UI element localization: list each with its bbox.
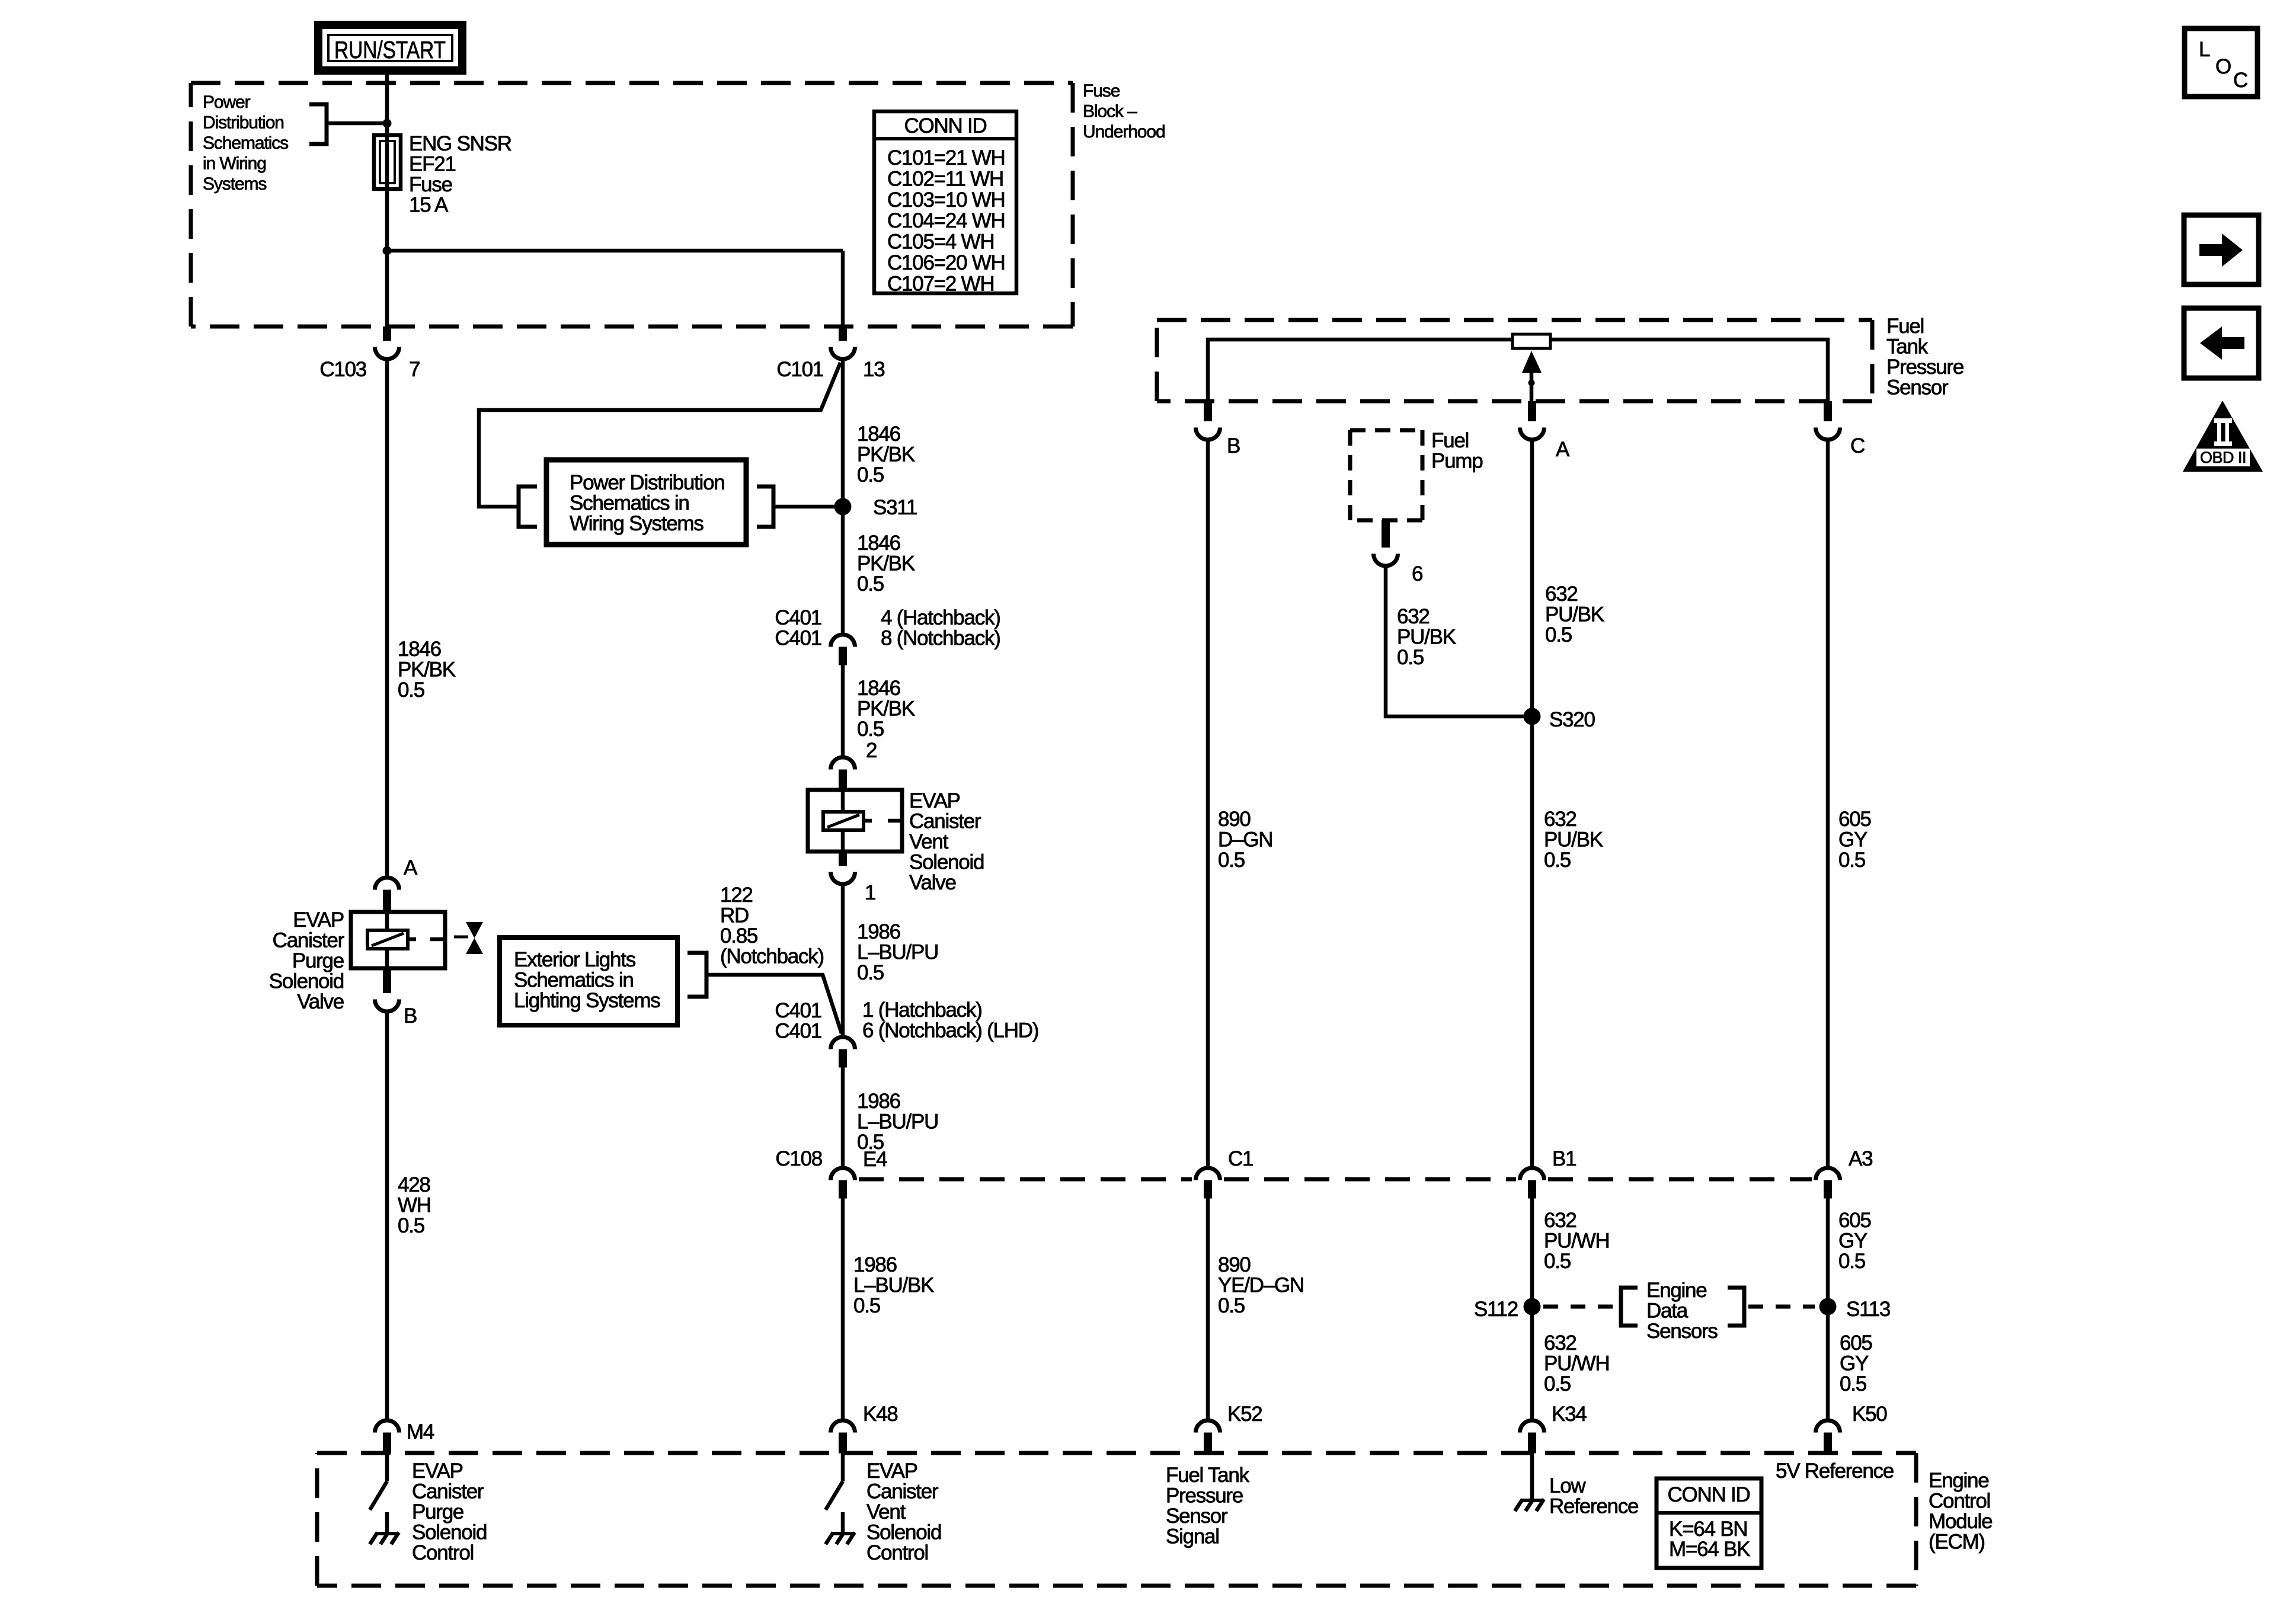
svg-text:1986: 1986 xyxy=(857,1090,900,1113)
label S320 xyxy=(1549,708,1595,731)
svg-text:1986: 1986 xyxy=(853,1253,897,1276)
label A xyxy=(1556,438,1570,461)
svg-text:A: A xyxy=(404,856,418,879)
svg-text:YE/D–GN: YE/D–GN xyxy=(1218,1274,1304,1297)
svg-text:0.5: 0.5 xyxy=(1838,1250,1865,1273)
svg-text:Control: Control xyxy=(866,1541,928,1564)
svg-text:Schematics: Schematics xyxy=(203,133,288,153)
svg-text:Solenoid: Solenoid xyxy=(909,851,984,874)
svg-text:Control: Control xyxy=(1929,1490,1990,1513)
wire E4 to K48 (1986 L-BU/BK) xyxy=(841,1198,845,1419)
connector pin A of sensor xyxy=(1520,401,1544,440)
arrow right legend box xyxy=(2184,215,2259,284)
splice S112 xyxy=(1524,1298,1541,1315)
wire sensor C to A3 (605 GY) xyxy=(1826,441,1830,1166)
svg-text:PU/BK: PU/BK xyxy=(1397,626,1456,649)
label Fuel Pump xyxy=(1431,429,1482,473)
svg-text:PK/BK: PK/BK xyxy=(857,443,915,466)
fuel pump dashed box xyxy=(1350,430,1422,520)
svg-text:Wiring Systems: Wiring Systems xyxy=(570,512,703,535)
connector C401 pins 1/6 xyxy=(831,1037,855,1068)
svg-text:Tank: Tank xyxy=(1886,335,1929,359)
wire sensor B to C1 (890 D-GN) xyxy=(1206,441,1210,1166)
connector C101 pin 13 xyxy=(831,327,855,359)
svg-text:0.5: 0.5 xyxy=(1840,1372,1866,1395)
wire C101 to S311 and C401 xyxy=(841,361,845,633)
svg-text:B: B xyxy=(1227,434,1240,457)
connector C401 pins 4/8 xyxy=(831,635,855,665)
label pin B xyxy=(404,1004,417,1028)
svg-text:632: 632 xyxy=(1397,605,1430,628)
ECM CONN ID table xyxy=(1657,1478,1761,1568)
svg-text:B1: B1 xyxy=(1552,1147,1576,1170)
fuse block CONN ID table xyxy=(874,111,1016,295)
svg-text:Solenoid: Solenoid xyxy=(269,970,344,993)
svg-text:PK/BK: PK/BK xyxy=(398,658,456,681)
svg-text:Engine: Engine xyxy=(1646,1279,1706,1302)
bracket to power distribution reference xyxy=(309,104,327,144)
svg-text:Module: Module xyxy=(1929,1510,1992,1533)
label 1986 L-BU/PU 0.5 upper xyxy=(857,920,938,984)
svg-text:C108: C108 xyxy=(775,1147,822,1170)
svg-text:C104=24 WH: C104=24 WH xyxy=(887,209,1005,232)
label S311 xyxy=(873,496,917,519)
svg-text:Reference: Reference xyxy=(1549,1495,1638,1518)
svg-text:0.85: 0.85 xyxy=(720,924,757,948)
svg-text:7: 7 xyxy=(409,358,420,381)
svg-text:C401: C401 xyxy=(775,627,821,650)
label Low Reference xyxy=(1549,1474,1638,1518)
wire bracket to S311 xyxy=(773,505,843,509)
svg-text:GY: GY xyxy=(1840,1352,1869,1375)
label C401 C401 xyxy=(775,606,821,650)
label A3 xyxy=(1849,1147,1872,1170)
svg-text:C: C xyxy=(1850,434,1865,457)
splice S320 xyxy=(1524,708,1541,725)
connector pin B of purge valve xyxy=(375,968,399,1012)
svg-text:S320: S320 xyxy=(1549,708,1595,731)
wire C401 to C108 E4 xyxy=(841,1067,845,1166)
svg-text:Control: Control xyxy=(412,1541,474,1564)
svg-text:1986: 1986 xyxy=(857,920,900,943)
label E4 xyxy=(863,1148,887,1171)
svg-text:EF21: EF21 xyxy=(409,153,456,176)
svg-text:Distribution: Distribution xyxy=(203,113,284,133)
svg-text:Canister: Canister xyxy=(866,1480,939,1503)
connector pin 1 of vent valve xyxy=(831,852,855,884)
connector pin C of sensor xyxy=(1816,401,1840,440)
svg-text:0.5: 0.5 xyxy=(1544,849,1571,872)
svg-text:1846: 1846 xyxy=(857,422,900,446)
svg-text:D–GN: D–GN xyxy=(1218,828,1272,852)
label pin 1 xyxy=(865,881,875,904)
svg-text:6: 6 xyxy=(1412,562,1422,585)
label Fuel Tank Pressure Sensor xyxy=(1886,315,1964,399)
power distribution schematics box xyxy=(546,460,746,545)
svg-text:Canister: Canister xyxy=(273,929,345,952)
connector K34 xyxy=(1520,1420,1544,1454)
connector M4 xyxy=(375,1420,399,1454)
label K52 xyxy=(1227,1403,1262,1426)
ground purge driver xyxy=(370,1512,399,1544)
svg-text:Lighting Systems: Lighting Systems xyxy=(514,989,660,1012)
svg-text:428: 428 xyxy=(398,1173,430,1196)
connector pin 6 of fuel pump xyxy=(1374,520,1398,566)
bracket left of power distribution box xyxy=(519,486,537,527)
label 1846 PK/BK 0.5 above pin 2 xyxy=(857,677,915,741)
label 605 GY 0.5 above A3 xyxy=(1838,808,1871,872)
label C101 xyxy=(776,358,823,381)
svg-text:605: 605 xyxy=(1838,1209,1871,1232)
svg-text:0.5: 0.5 xyxy=(1397,646,1424,669)
svg-text:1846: 1846 xyxy=(398,638,441,661)
label C401 C401 lower xyxy=(775,999,821,1043)
label B1 xyxy=(1552,1147,1576,1170)
svg-text:Power Distribution: Power Distribution xyxy=(570,471,725,494)
svg-text:C105=4 WH: C105=4 WH xyxy=(887,231,994,254)
svg-text:890: 890 xyxy=(1218,1253,1251,1276)
svg-text:ENG SNSR: ENG SNSR xyxy=(409,132,511,155)
svg-text:C106=20 WH: C106=20 WH xyxy=(887,251,1005,274)
svg-text:8 (Notchback): 8 (Notchback) xyxy=(881,627,1000,650)
label C108 xyxy=(775,1147,822,1170)
label K50 xyxy=(1852,1403,1887,1426)
fuse block underhood dashed box xyxy=(191,83,1073,327)
svg-text:1 (Hatchback): 1 (Hatchback) xyxy=(862,998,982,1022)
svg-text:Underhood: Underhood xyxy=(1083,122,1165,142)
svg-text:C1: C1 xyxy=(1228,1147,1253,1170)
svg-text:Fuel: Fuel xyxy=(1431,429,1469,452)
label 632 PU/BK 0.5 above S320 xyxy=(1545,582,1604,646)
svg-text:EVAP: EVAP xyxy=(412,1459,463,1483)
label S113 xyxy=(1846,1298,1890,1321)
label 632 PU/WH 0.5 below S112 xyxy=(1544,1331,1609,1395)
svg-text:1846: 1846 xyxy=(857,677,900,700)
label B xyxy=(1227,434,1240,457)
svg-text:S113: S113 xyxy=(1846,1298,1890,1321)
label pin 6 xyxy=(1412,562,1422,585)
engine control module dashed box xyxy=(317,1453,1916,1586)
svg-text:Fuel: Fuel xyxy=(1886,315,1924,338)
svg-text:Schematics in: Schematics in xyxy=(570,492,689,515)
svg-text:Pump: Pump xyxy=(1431,450,1482,473)
svg-text:S311: S311 xyxy=(873,496,917,519)
svg-text:632: 632 xyxy=(1545,582,1578,606)
svg-text:Data: Data xyxy=(1646,1299,1689,1323)
splice S113 xyxy=(1819,1298,1837,1315)
svg-text:S112: S112 xyxy=(1474,1298,1518,1321)
label M4 xyxy=(407,1420,434,1443)
wire pin1 to C401 xyxy=(841,886,845,1035)
svg-text:EVAP: EVAP xyxy=(866,1459,917,1483)
label K48 xyxy=(863,1403,898,1426)
bracket left of engine data sensors xyxy=(1621,1288,1638,1326)
svg-text:K52: K52 xyxy=(1227,1403,1262,1426)
bracket right of power distribution box xyxy=(757,486,773,527)
dotted harness line C108 xyxy=(859,1177,1812,1182)
connector K48 xyxy=(831,1420,855,1454)
label 1986 L-BU/BK 0.5 xyxy=(853,1253,934,1317)
connector K52 xyxy=(1195,1420,1220,1454)
svg-text:0.5: 0.5 xyxy=(398,678,424,702)
svg-text:PU/BK: PU/BK xyxy=(1544,828,1603,852)
LOC legend box xyxy=(2185,28,2257,97)
label 1846 PK/BK 0.5 above S311 xyxy=(857,422,915,486)
svg-text:E4: E4 xyxy=(863,1148,887,1171)
svg-text:Sensor: Sensor xyxy=(1166,1505,1228,1528)
label S112 xyxy=(1474,1298,1518,1321)
svg-text:5V Reference: 5V Reference xyxy=(1776,1459,1894,1483)
svg-text:C101: C101 xyxy=(776,358,823,381)
svg-text:CONN ID: CONN ID xyxy=(904,114,986,137)
reference tag Power Distribution Schematics in Wiring Systems xyxy=(203,92,288,194)
exterior lights schematics box xyxy=(500,937,677,1025)
label K34 xyxy=(1552,1403,1587,1426)
wire fuel pump to S320 (632 PU/BK) xyxy=(1386,567,1532,716)
svg-text:CONN ID: CONN ID xyxy=(1667,1483,1750,1506)
svg-text:605: 605 xyxy=(1840,1331,1872,1355)
svg-text:K48: K48 xyxy=(863,1403,898,1426)
svg-text:Fuse: Fuse xyxy=(409,173,452,196)
svg-text:C: C xyxy=(2233,69,2248,92)
label 890 D-GN 0.5 xyxy=(1218,808,1272,872)
svg-text:C103: C103 xyxy=(319,358,366,381)
svg-text:C101=21 WH: C101=21 WH xyxy=(887,146,1005,169)
svg-text:Low: Low xyxy=(1549,1474,1586,1497)
vent control driver switch xyxy=(826,1453,843,1510)
wire A3 to S113 xyxy=(1826,1198,1830,1419)
node at fuse top xyxy=(383,119,392,128)
wire purge valve to M4 (428 WH) xyxy=(385,1013,389,1419)
label C xyxy=(1850,434,1865,457)
svg-text:0.5: 0.5 xyxy=(1544,1250,1571,1273)
label C1 xyxy=(1228,1147,1253,1170)
fuse EF21 ENG SNSR 15A xyxy=(374,123,401,189)
svg-text:K50: K50 xyxy=(1852,1403,1887,1426)
svg-text:Vent: Vent xyxy=(909,830,949,853)
potentiometer element xyxy=(1512,334,1550,348)
connector K50 xyxy=(1816,1420,1840,1454)
wire C1 to K52 (890 YE/D-GN) xyxy=(1206,1198,1210,1419)
wire diagonal from C101 to power distribution tap xyxy=(479,363,840,507)
svg-text:Engine: Engine xyxy=(1929,1469,1988,1492)
svg-text:Solenoid: Solenoid xyxy=(412,1521,487,1544)
label EVAP Canister Vent Solenoid Control xyxy=(866,1459,941,1564)
label 1986 L-BU/PU 0.5 lower xyxy=(857,1090,938,1154)
svg-text:Purge: Purge xyxy=(412,1500,463,1523)
node branch to C101 xyxy=(383,247,392,255)
svg-text:890: 890 xyxy=(1218,808,1251,831)
label Engine Control Module (ECM) xyxy=(1929,1469,1992,1554)
svg-text:Valve: Valve xyxy=(297,990,344,1013)
svg-text:Sensors: Sensors xyxy=(1646,1320,1718,1343)
svg-text:6 (Notchback) (LHD): 6 (Notchback) (LHD) xyxy=(862,1019,1038,1042)
svg-text:0.5: 0.5 xyxy=(857,961,884,984)
svg-text:in Wiring: in Wiring xyxy=(203,154,266,174)
svg-text:Purge: Purge xyxy=(292,949,344,972)
svg-text:Sensor: Sensor xyxy=(1886,376,1949,399)
label 1 (Hatchback) 6 (Notchback) (LHD) xyxy=(862,998,1038,1042)
svg-text:Exterior Lights: Exterior Lights xyxy=(514,948,636,971)
wire bracket to node xyxy=(327,121,387,126)
connector A3 xyxy=(1816,1168,1840,1199)
svg-text:Solenoid: Solenoid xyxy=(866,1521,941,1544)
svg-text:605: 605 xyxy=(1838,808,1871,831)
purge control driver switch xyxy=(370,1453,387,1510)
svg-text:A: A xyxy=(1556,438,1570,461)
svg-text:0.5: 0.5 xyxy=(1218,849,1245,872)
svg-text:C103=10 WH: C103=10 WH xyxy=(887,188,1005,212)
svg-text:0.5: 0.5 xyxy=(1545,623,1572,646)
svg-text:0.5: 0.5 xyxy=(1544,1372,1571,1395)
wire sensor A to B1 xyxy=(1530,441,1534,1166)
svg-text:Valve: Valve xyxy=(909,871,956,894)
wire C401 to vent valve pin 2 xyxy=(841,665,845,756)
svg-text:Pressure: Pressure xyxy=(1166,1484,1243,1507)
svg-text:1846: 1846 xyxy=(857,532,900,555)
svg-text:(ECM): (ECM) xyxy=(1929,1531,1985,1554)
svg-text:0.5: 0.5 xyxy=(398,1214,424,1237)
svg-text:PU/WH: PU/WH xyxy=(1544,1230,1609,1253)
wire fuse to C103 xyxy=(385,189,389,327)
power feed box RUN/START xyxy=(318,25,462,71)
label pin A purge valve xyxy=(404,856,418,879)
connector B1 xyxy=(1520,1168,1544,1199)
svg-text:15 A: 15 A xyxy=(409,194,449,217)
label 428 WH 0.5 xyxy=(398,1173,431,1237)
svg-text:PK/BK: PK/BK xyxy=(857,552,915,575)
label Fuel Tank Pressure Sensor Signal xyxy=(1166,1464,1250,1548)
svg-text:C401: C401 xyxy=(775,1020,821,1043)
svg-text:0.5: 0.5 xyxy=(857,572,884,596)
svg-text:1: 1 xyxy=(865,881,875,904)
svg-text:632: 632 xyxy=(1544,1331,1576,1355)
svg-text:M=64 BK: M=64 BK xyxy=(1669,1538,1750,1561)
wiper arrow xyxy=(1522,351,1542,401)
svg-text:Pressure: Pressure xyxy=(1886,356,1964,379)
label EVAP Canister Purge Solenoid Valve xyxy=(269,908,345,1013)
label Fuse Block - Underhood xyxy=(1083,81,1165,142)
wire B1 to S112 xyxy=(1530,1198,1534,1419)
label EVAP Canister Vent Solenoid Valve xyxy=(909,789,984,894)
svg-text:Systems: Systems xyxy=(203,174,266,194)
svg-text:Canister: Canister xyxy=(412,1480,484,1503)
bracket right of engine data sensors xyxy=(1728,1288,1744,1326)
engine data sensors dashed tie xyxy=(1543,1305,1815,1309)
wire C103 to purge valve (1846 PK/BK) xyxy=(385,361,389,876)
label 122 RD 0.85 (Notchback) xyxy=(720,884,824,968)
label 632 PU/BK 0.5 below S320 xyxy=(1544,808,1603,872)
connector C1 xyxy=(1195,1168,1220,1199)
wire exterior lights to C401 (122 RD) xyxy=(706,975,842,1033)
EVAP canister purge solenoid valve xyxy=(351,912,445,968)
label 4 (Hatchback) 8 (Notchback) xyxy=(881,606,1000,650)
svg-text:EVAP: EVAP xyxy=(909,789,960,812)
svg-text:Schematics in: Schematics in xyxy=(514,969,634,992)
svg-text:122: 122 xyxy=(720,884,753,907)
label pin 7 xyxy=(409,358,420,381)
svg-text:OBD II: OBD II xyxy=(2200,449,2246,466)
svg-text:0.5: 0.5 xyxy=(1838,849,1865,872)
connector C103 pin 7 xyxy=(375,327,399,359)
wire branch to C101 drop xyxy=(387,251,843,327)
connector pin 2 of vent valve xyxy=(831,757,855,791)
fuel tank pressure sensor dashed box xyxy=(1157,320,1872,401)
svg-text:0.5: 0.5 xyxy=(857,463,884,486)
svg-text:4 (Hatchback): 4 (Hatchback) xyxy=(881,606,1000,629)
label ENG SNSR EF21 Fuse 15 A xyxy=(409,132,511,217)
svg-text:L: L xyxy=(2199,38,2210,61)
svg-text:Block –: Block – xyxy=(1083,102,1137,121)
label C103 xyxy=(319,358,366,381)
svg-text:632: 632 xyxy=(1544,808,1576,831)
svg-text:GY: GY xyxy=(1838,1230,1868,1253)
splice S311 xyxy=(834,498,852,516)
svg-text:PU/BK: PU/BK xyxy=(1545,603,1604,626)
svg-text:O: O xyxy=(2215,55,2231,78)
label 1846 PK/BK 0.5 below S311 xyxy=(857,532,915,596)
svg-text:632: 632 xyxy=(1544,1209,1576,1232)
svg-text:C107=2 WH: C107=2 WH xyxy=(887,272,994,295)
label 605 GY 0.5 above S113 xyxy=(1838,1209,1871,1273)
svg-text:C401: C401 xyxy=(775,999,821,1022)
arrow left legend box xyxy=(2184,308,2259,378)
svg-text:L–BU/BK: L–BU/BK xyxy=(853,1274,934,1297)
EVAP canister vent solenoid valve xyxy=(808,790,902,852)
svg-text:K34: K34 xyxy=(1552,1403,1587,1426)
label 632 PU/BK 0.5 fuel pump xyxy=(1397,605,1456,669)
svg-text:Fuel Tank: Fuel Tank xyxy=(1166,1464,1250,1487)
svg-text:PK/BK: PK/BK xyxy=(857,697,915,721)
svg-text:RUN/START: RUN/START xyxy=(334,36,446,63)
svg-text:A3: A3 xyxy=(1849,1147,1872,1170)
svg-text:C102=11 WH: C102=11 WH xyxy=(887,167,1003,190)
wire RUN/START to fuse xyxy=(385,71,389,137)
label pin 13 xyxy=(863,358,884,381)
svg-text:Power: Power xyxy=(203,92,251,112)
connector pin A of purge valve xyxy=(375,878,399,911)
label pin 2 xyxy=(866,739,877,762)
svg-text:13: 13 xyxy=(863,358,884,381)
label 890 YE/D-GN 0.5 xyxy=(1218,1253,1304,1317)
svg-text:Canister: Canister xyxy=(909,810,981,833)
svg-text:B: B xyxy=(404,1004,417,1028)
bracket right of exterior lights box xyxy=(687,953,706,997)
svg-text:Signal: Signal xyxy=(1166,1525,1219,1548)
label 605 GY 0.5 below S113 xyxy=(1840,1331,1872,1395)
svg-text:RD: RD xyxy=(720,904,749,927)
svg-text:0.5: 0.5 xyxy=(1218,1294,1245,1317)
svg-text:C401: C401 xyxy=(775,606,821,629)
label EVAP Canister Purge Solenoid Control xyxy=(412,1459,487,1564)
svg-text:M4: M4 xyxy=(407,1420,434,1443)
connector C108 E4 xyxy=(831,1168,855,1199)
connector pin B of sensor xyxy=(1195,401,1220,440)
label Engine Data Sensors xyxy=(1646,1279,1718,1343)
ground vent driver xyxy=(826,1512,855,1544)
label 5V Reference xyxy=(1776,1459,1894,1483)
svg-text:Fuse: Fuse xyxy=(1083,81,1120,101)
svg-text:WH: WH xyxy=(398,1194,431,1217)
label 1846 PK/BK 0.5 left column xyxy=(398,638,456,702)
svg-text:L–BU/PU: L–BU/PU xyxy=(857,941,938,964)
sensor internal wiring xyxy=(1208,340,1828,401)
svg-text:GY: GY xyxy=(1838,828,1868,852)
valve bowtie symbol xyxy=(454,922,483,954)
low reference ground xyxy=(1515,1453,1544,1511)
svg-text:PU/WH: PU/WH xyxy=(1544,1352,1609,1375)
svg-text:Vent: Vent xyxy=(866,1500,906,1523)
